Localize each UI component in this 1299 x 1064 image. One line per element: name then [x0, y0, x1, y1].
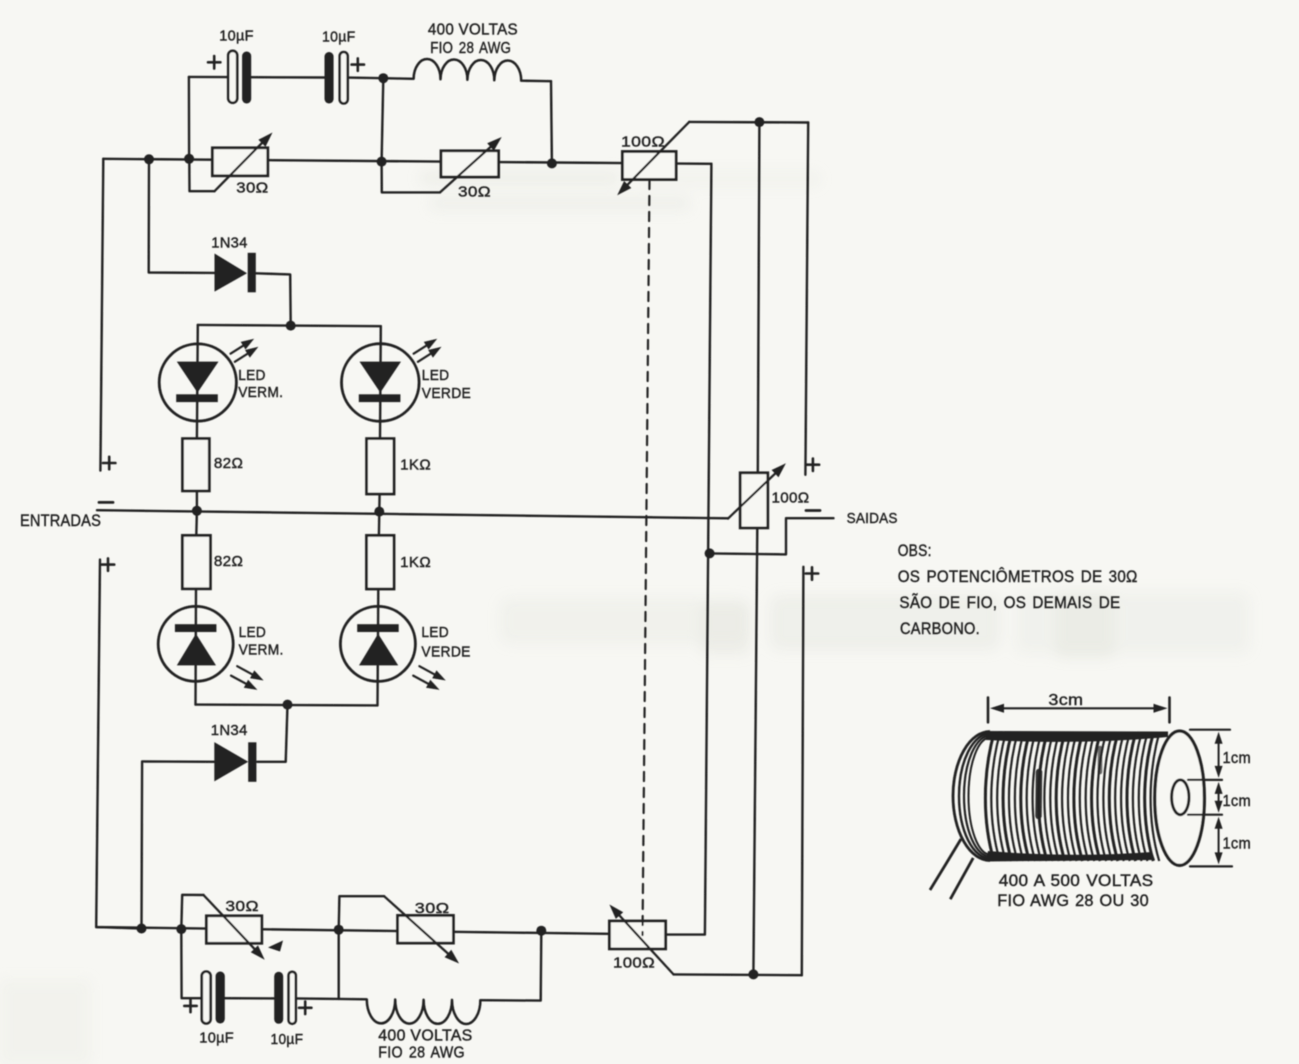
svg-text:82Ω: 82Ω	[214, 553, 243, 570]
junction node bottom wiper bus junction	[748, 969, 758, 979]
wire: riser from C2 junction down to pot row node B	[382, 78, 384, 161]
svg-text:82Ω: 82Ω	[214, 455, 243, 472]
svg-text:400 A 500 VOLTAS: 400 A 500 VOLTAS	[999, 871, 1154, 890]
svg-text:FIO AWG 28 OU 30: FIO AWG 28 OU 30	[997, 891, 1149, 910]
svg-text:10µF: 10µF	[219, 27, 254, 44]
svg-text:400 VOLTAS: 400 VOLTAS	[428, 22, 518, 39]
svg-text:1KΩ: 1KΩ	[400, 456, 431, 473]
wire: D2 anode to left inner rail down to bottom row	[142, 761, 215, 928]
svg-text:100Ω: 100Ω	[621, 134, 665, 151]
resistor R2 1K ohm	[367, 439, 431, 494]
svg-text:10µF: 10µF	[322, 29, 356, 46]
diode D2 1N34	[211, 722, 257, 782]
capacitor C3 10uF	[184, 972, 234, 1047]
terminal SAIDAS + (lower)	[806, 567, 818, 579]
wire: right rail from P6 right terminal down to P7 right terminal	[666, 164, 712, 935]
svg-text:1N34: 1N34	[211, 722, 248, 739]
capacitor C4 10uF	[271, 972, 312, 1048]
wire: upper LED row	[198, 325, 381, 326]
svg-text:CARBONO.: CARBONO.	[900, 619, 980, 638]
svg-text:10µF: 10µF	[199, 1029, 234, 1046]
wire: ENTRADAS lower + rail	[96, 560, 141, 929]
junction node R1-ENTRADAS junction	[192, 506, 202, 516]
wire: P5 top lead from top wiper bus	[758, 122, 760, 473]
svg-text:10µF: 10µF	[271, 1031, 304, 1048]
wire: ENTRADAS upper + rail	[100, 159, 103, 471]
svg-text:VERM.: VERM.	[239, 642, 284, 659]
svg-text:FIO 28 AWG: FIO 28 AWG	[430, 40, 511, 57]
inductor L1 400 voltas fio 28 AWG	[414, 22, 522, 81]
junction node D1-LED row junction	[286, 321, 296, 331]
junction node LED row-D2 junction	[283, 700, 293, 710]
wire: bottom wiper bus (P7 wiper to SAIDAS lower + rail)	[674, 973, 802, 976]
potentiometer P1 30 ohm	[212, 133, 272, 197]
wire: top wiper bus (P6 wiper to SAIDAS + rail)	[689, 121, 808, 124]
wire: bottom capacitor branch segments	[181, 929, 338, 999]
svg-text:400 VOLTAS: 400 VOLTAS	[378, 1028, 472, 1045]
svg-text:SÃO DE FIO, OS DEMAIS DE: SÃO DE FIO, OS DEMAIS DE	[899, 593, 1120, 612]
resistor R1 82 ohm	[183, 439, 244, 491]
wire: bottom potentiometer row	[96, 927, 665, 935]
junction node R2-ENTRADAS junction	[374, 507, 384, 517]
diode D1 1N34	[211, 235, 256, 293]
svg-text:3cm: 3cm	[1048, 692, 1083, 709]
LED1 red (upper)	[159, 339, 283, 421]
svg-text:30Ω: 30Ω	[236, 179, 268, 196]
wire: LED2 anode drop through R2 to ENTRADAS line	[379, 326, 381, 511]
terminal SAIDAS - and label	[806, 510, 898, 527]
wire: ENTRADAS line through R4 and LED4 drop	[378, 512, 380, 706]
junction node C3/P3 junction	[176, 924, 186, 934]
wire: riser from bottom cap junction to row node	[338, 930, 340, 999]
coil wire lead pair	[930, 839, 973, 899]
svg-text:30Ω: 30Ω	[225, 898, 259, 915]
LED2 green (upper)	[342, 339, 472, 422]
svg-text:LED: LED	[239, 624, 267, 641]
svg-text:VERDE: VERDE	[421, 643, 470, 660]
junction node D2 bottom row junction	[137, 924, 147, 934]
terminal SAIDAS + (upper)	[807, 459, 819, 471]
potentiometer P4 30 ohm (bottom)	[384, 896, 459, 963]
coil right face with centre hole	[1155, 731, 1205, 865]
note OBS text block	[898, 542, 1138, 638]
svg-text:FIO 28 AWG: FIO 28 AWG	[378, 1045, 465, 1062]
inductor L2 400 voltas fio 28 AWG	[367, 999, 481, 1061]
svg-text:100Ω: 100Ω	[613, 954, 655, 971]
coil construction illustration: spool body	[953, 731, 1168, 862]
svg-text:ENTRADAS: ENTRADAS	[20, 511, 101, 530]
svg-text:OBS:: OBS:	[898, 542, 932, 560]
wire: top inductor branch segments	[383, 78, 552, 163]
wire: top potentiometer row	[103, 159, 711, 164]
junction node L2 right junction	[536, 926, 546, 936]
terminal ENTRADAS - and label	[20, 502, 113, 530]
svg-text:1cm: 1cm	[1223, 793, 1252, 810]
potentiometer P5 100 ohm (output level)	[728, 463, 810, 528]
wire: D1 cathode to upper LED row	[256, 273, 291, 325]
LED4 green (lower)	[340, 606, 470, 690]
wire: P1 wiper tie to left terminal	[189, 161, 214, 191]
resistor R4 1K ohm	[367, 535, 432, 589]
capacitor C1 10uF	[208, 27, 254, 103]
wire: LED1 anode drop through R1 to ENTRADAS line	[196, 325, 199, 511]
svg-text:1N34: 1N34	[211, 235, 248, 252]
svg-text:LED: LED	[422, 367, 450, 384]
svg-text:VERDE: VERDE	[422, 385, 471, 402]
svg-text:LED: LED	[421, 624, 449, 641]
wire: ENTRADAS common line to P5 wiper	[97, 510, 728, 518]
resistor R3 82 ohm	[182, 535, 243, 588]
capacitor C2 10uF	[322, 29, 364, 104]
wire: SAIDAS lower + rail	[802, 567, 804, 975]
wire: lower LED row to diode D2 cathode	[257, 705, 287, 762]
wire: lower LED row	[196, 703, 378, 706]
junction node A (C1/P1 left junction)	[184, 154, 194, 164]
potentiometer P3 30 ohm (bottom)	[204, 895, 284, 960]
junction node top wiper bus junction	[754, 117, 764, 127]
wire: SAIDAS upper + rail	[805, 123, 808, 475]
wire: riser from node A up to capacitor branch	[188, 77, 191, 159]
wire: bottom inductor branch segments	[339, 931, 542, 1001]
ganged-control dashed link between P6 and P7	[643, 180, 650, 935]
wire: top capacitor branch segments	[189, 77, 383, 78]
wire: P4 wiper tie to left terminal	[339, 896, 384, 930]
potentiometer P2 30 ohm	[440, 137, 502, 201]
svg-text:30Ω: 30Ω	[415, 900, 450, 917]
svg-text:SAIDAS: SAIDAS	[847, 510, 898, 527]
wire: P5 bottom lead down to bottom wiper bus	[753, 528, 757, 975]
wire: branch from node to diode D1	[149, 159, 215, 273]
svg-text:1KΩ: 1KΩ	[400, 554, 431, 571]
junction node C4/P4 junction	[334, 925, 344, 935]
svg-text:1cm: 1cm	[1223, 750, 1252, 767]
wire: P2 wiper tie to left terminal	[382, 162, 440, 193]
coil caption 400 A 500 VOLTAS / FIO AWG 28 OU 30	[997, 871, 1153, 910]
svg-text:LED: LED	[238, 367, 266, 384]
terminal ENTRADAS + (upper)	[103, 457, 115, 469]
wire: ENTRADAS line through R3 and LED3 drop	[196, 511, 197, 705]
junction node L1 right junction	[547, 158, 557, 168]
svg-text:1cm: 1cm	[1223, 836, 1252, 853]
svg-text:100Ω: 100Ω	[772, 489, 810, 506]
dimension: 3cm across coil	[988, 692, 1170, 723]
svg-text:30Ω: 30Ω	[458, 184, 491, 201]
terminal ENTRADAS + (lower)	[102, 558, 114, 570]
junction node SAIDAS - junction	[705, 548, 715, 558]
svg-text:OS POTENCIÔMETROS DE 30Ω: OS POTENCIÔMETROS DE 30Ω	[898, 567, 1138, 586]
junction node diode D1 tap	[144, 154, 154, 164]
LED3 red (lower)	[158, 606, 283, 690]
potentiometer P6 100 ohm (top, ganged)	[617, 122, 689, 195]
junction node B (C2/P2 junction)	[377, 157, 387, 167]
wire: SAIDAS - link to right rail	[710, 518, 834, 554]
junction node C2 top junction	[378, 73, 388, 83]
svg-text:VERM.: VERM.	[238, 384, 283, 401]
potentiometer P7 100 ohm (bottom, ganged)	[609, 905, 673, 975]
dimension: 1cm marks on coil face	[1188, 730, 1251, 867]
wire: P3 wiper tie to left terminal	[181, 895, 203, 929]
